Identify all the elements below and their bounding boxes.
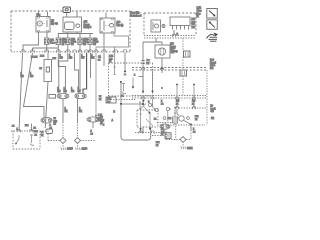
junction dot right feed B xyxy=(193,84,195,86)
right lower connector row xyxy=(160,124,205,126)
dashed wire into diamond D2 xyxy=(78,122,97,141)
node G ground strap box xyxy=(63,7,71,13)
dashed link C3 down to firewall row xyxy=(182,76,184,95)
relay K1 pin stubs xyxy=(39,12,48,17)
pin bumps on body row xyxy=(142,97,196,99)
fuse F2 xyxy=(66,38,70,44)
svg-text:RD: RD xyxy=(64,91,68,93)
switch arm right xyxy=(132,78,134,88)
svg-text:RD: RD xyxy=(60,58,64,60)
zoom in icon xyxy=(207,9,218,19)
dashed row left of switch box xyxy=(108,99,135,101)
wire junction down xyxy=(190,125,192,131)
wire right feed A xyxy=(176,84,178,108)
wire row to fuse holder xyxy=(47,53,49,60)
pin bracket right xyxy=(174,108,176,114)
switch output junction dot xyxy=(120,81,122,83)
wire relay K3 left pin to row xyxy=(103,33,105,52)
arrow pin at row for lower contact wire xyxy=(149,128,151,130)
switch bracket P xyxy=(122,84,126,94)
pressure cycling switch contact xyxy=(177,109,179,116)
wire lower contact down xyxy=(149,114,151,130)
svg-text:G105: G105 xyxy=(67,149,73,151)
blade to lower arrow xyxy=(144,107,151,114)
svg-text:FR: FR xyxy=(211,118,214,120)
main power bus xyxy=(121,103,143,105)
svg-text:Underhood: Underhood xyxy=(130,15,142,18)
underhood accessory dashed box xyxy=(144,13,196,36)
junction dot bus left xyxy=(120,103,122,105)
fuse F2 wires xyxy=(67,34,69,52)
svg-text:Lock: Lock xyxy=(211,108,217,110)
relay module inner dashed box xyxy=(137,110,158,127)
fuse F4 wires xyxy=(89,34,91,52)
switch symbol inside box right xyxy=(30,135,34,145)
pin symbols upper of lower row xyxy=(163,117,166,120)
wire bus to pin B xyxy=(33,48,58,52)
svg-text:Rly 4B: Rly 4B xyxy=(51,23,58,25)
diamond D3 xyxy=(180,137,186,143)
wire x162 junction dot lower xyxy=(161,87,163,89)
junction dot bus right xyxy=(142,103,144,105)
switch symbol inside box left xyxy=(17,135,20,143)
dashed right edge column xyxy=(206,70,208,125)
zoom out icon xyxy=(207,20,218,30)
pin on left row xyxy=(17,129,20,132)
svg-text:GY: GY xyxy=(81,58,85,60)
wire relay K2 bottom pins to bus xyxy=(67,32,77,34)
dashed path pin to diamond D1 xyxy=(48,134,60,141)
relay module wire loop rounded xyxy=(121,104,151,140)
accessory box bottom connector rows xyxy=(144,36,196,39)
wire column B to splice jog xyxy=(24,53,45,118)
wire splice S6 to row xyxy=(163,129,165,132)
svg-text:Fuse: Fuse xyxy=(210,65,216,67)
dashed link col x183 to connector C2 xyxy=(182,38,184,51)
stub on compressor wire xyxy=(139,76,144,78)
ground G201 xyxy=(182,142,184,146)
right connector row upper xyxy=(176,107,207,109)
contact circle D xyxy=(166,107,169,110)
row pins center xyxy=(139,131,154,134)
svg-text:BK: BK xyxy=(65,111,69,113)
diamond D1 xyxy=(60,138,66,144)
fuse F3 wires xyxy=(79,34,81,52)
inline connector T1 xyxy=(172,117,177,123)
fuse F4 xyxy=(88,38,92,44)
lower connector row center xyxy=(135,132,162,134)
wire splice S1 down xyxy=(62,99,64,122)
svg-text:xxA: xxA xyxy=(50,39,54,42)
wire right feed B xyxy=(193,84,195,108)
splice S6 xyxy=(160,124,170,129)
svg-text:BK: BK xyxy=(91,58,95,60)
switch pin wire 2 with contact dot xyxy=(124,53,126,71)
dashed ground path box right xyxy=(166,126,191,140)
svg-text:Rly (2): Rly (2) xyxy=(117,25,124,27)
arrow pin at row for left contact wire xyxy=(139,128,141,130)
svg-text:RD: RD xyxy=(71,91,75,93)
wire relay K1 right pin down to fuse F0 xyxy=(46,32,48,38)
wire x152 pin arrow at body row xyxy=(152,70,154,93)
splice S2 xyxy=(75,93,86,98)
contact bracket K5 xyxy=(139,102,141,109)
fuse F3 xyxy=(78,38,82,44)
wire pin bracket down to connector T1 xyxy=(174,113,176,117)
svg-text:G201: G201 xyxy=(187,148,193,150)
connector symbol bottom center xyxy=(165,133,171,139)
svg-text:LH: LH xyxy=(51,21,54,23)
left bottom connector row xyxy=(11,130,50,132)
relay K3 top pin stub xyxy=(105,13,107,19)
wire x96 gray feed to splice S3 xyxy=(95,53,97,117)
svg-text:GY: GY xyxy=(78,91,82,93)
connector strip CS1 xyxy=(170,17,190,30)
svg-text:Comp: Comp xyxy=(84,24,91,26)
in-line fuse holder F10 xyxy=(44,60,52,82)
relay K2 top pin stub xyxy=(76,12,78,18)
svg-text:Dr: Dr xyxy=(211,105,214,108)
pins on right upper row xyxy=(175,106,195,109)
svg-text:RD: RD xyxy=(57,91,61,93)
wire contact D down to splice S6 xyxy=(167,111,169,122)
wire F3 feed to splice S2 xyxy=(79,53,81,94)
contact dot K5 xyxy=(143,100,145,102)
wire fuse holder down xyxy=(45,82,48,129)
svg-text:Ohm: Ohm xyxy=(197,11,202,13)
svg-text:A/C: A/C xyxy=(84,21,88,24)
svg-text:A/C: A/C xyxy=(170,43,174,46)
relay K3 xyxy=(100,18,115,33)
firewall pass-through dashed rows xyxy=(132,68,207,71)
svg-text:RD: RD xyxy=(192,101,196,103)
wire splice S3 down stub xyxy=(92,122,94,128)
splice S1 xyxy=(57,93,68,98)
wire x143 pin arrow at body row xyxy=(142,70,144,93)
pin 2 on left row xyxy=(30,129,33,132)
wire column A long run xyxy=(19,53,23,131)
pin D on accessory row xyxy=(173,30,175,36)
wire relay K3 right pin gray jog to column x96 xyxy=(96,33,129,52)
svg-text:A/C: A/C xyxy=(172,47,176,50)
pin bumps on firewall row xyxy=(142,68,164,70)
junction dot above splice S3 xyxy=(95,115,97,117)
contact circle K5b xyxy=(148,103,151,106)
inline connector box C2 xyxy=(184,51,191,57)
diagonal link to splice S6 xyxy=(146,119,153,126)
svg-text:A/C: A/C xyxy=(117,21,121,24)
callout label box xyxy=(106,97,116,103)
wire relay K1 pin to column A jog xyxy=(23,32,39,52)
svg-text:RD: RD xyxy=(21,76,25,78)
ground G101 xyxy=(62,143,64,147)
wire fuse F0 to row xyxy=(46,44,48,51)
wire F1 feed down to splice S1 xyxy=(58,53,65,94)
wire G box to relay K2 xyxy=(66,13,68,18)
wire F4 feed dark jog to splice S2 xyxy=(83,53,87,94)
switch pin bracket 1 xyxy=(113,47,115,75)
wire x152 below body row xyxy=(153,98,156,109)
blower switch dashed box xyxy=(109,63,153,96)
switch blade K5 xyxy=(141,104,146,109)
junction dot right feed A xyxy=(176,84,178,86)
fuse block bottom connector row xyxy=(11,51,130,53)
wire F2 feed jog to splice S1 xyxy=(59,53,68,94)
splice S5 xyxy=(41,118,52,124)
blade to junction xyxy=(184,120,191,124)
wire clutch coil to junction xyxy=(161,58,163,73)
wire compressor feed xyxy=(143,38,162,45)
dashed wire into diamond D1 xyxy=(62,122,64,138)
svg-text:Comp: Comp xyxy=(172,51,179,53)
svg-text:Fuse: Fuse xyxy=(50,42,56,44)
contact circle C xyxy=(155,108,158,111)
svg-text:Fuse Blk -: Fuse Blk - xyxy=(130,13,141,15)
pressure switch dashed box xyxy=(13,131,40,149)
wire x90 feed xyxy=(90,53,92,78)
small label box above splice S5 xyxy=(49,95,56,99)
svg-text:Relay 4: Relay 4 xyxy=(84,27,93,29)
fuse F1 wires xyxy=(57,34,59,52)
svg-text:BK: BK xyxy=(79,111,83,113)
wire module out bottom xyxy=(142,127,144,133)
svg-text:Sw: Sw xyxy=(211,111,215,113)
svg-text:RD: RD xyxy=(30,76,34,78)
wire relay K3 stub below row xyxy=(103,53,105,66)
body connector double row xyxy=(132,96,207,99)
wire splice S2 down xyxy=(77,99,79,122)
switch moving contact cross xyxy=(124,74,126,76)
wire connector T1 to row xyxy=(174,123,176,125)
dashed link to connector T1 xyxy=(157,122,172,124)
stub wire into ground box pin 2 xyxy=(31,124,33,132)
inline connector box C3 xyxy=(180,70,187,76)
relay K1 xyxy=(36,17,50,33)
ground G102 xyxy=(77,143,79,147)
compressor control contacts xyxy=(140,109,142,115)
fuse F0 xyxy=(45,38,49,44)
bus above fuses xyxy=(58,33,93,35)
wire left contact down to row xyxy=(140,114,142,133)
fuse F1 xyxy=(56,38,60,44)
hand pan icon xyxy=(207,33,219,42)
pin box right of row xyxy=(46,129,53,134)
dashed link C2 down xyxy=(182,57,184,70)
relay K4 inside accessory box xyxy=(151,20,165,32)
wire switch out bottom xyxy=(120,82,122,104)
diamond D2 xyxy=(75,138,81,144)
svg-text:Panel: Panel xyxy=(210,62,216,64)
svg-text:G103: G103 xyxy=(82,149,88,151)
junction dot on clutch wire xyxy=(161,68,163,70)
svg-text:Inst: Inst xyxy=(210,59,214,62)
compressor clutch coil M1 xyxy=(155,45,170,58)
splice S3 xyxy=(87,117,99,122)
fuse block underhood dashed outline xyxy=(11,11,130,52)
wire jog to splice S2 xyxy=(75,53,79,94)
svg-text:RD: RD xyxy=(69,58,73,60)
wire node C110 column xyxy=(142,42,144,94)
svg-text:RD: RD xyxy=(176,101,180,103)
connector pins on fuse block row xyxy=(21,50,127,53)
relay K2 xyxy=(63,17,82,32)
inline connector C110 xyxy=(141,61,145,64)
dashed stub row to connector sym xyxy=(152,135,165,137)
